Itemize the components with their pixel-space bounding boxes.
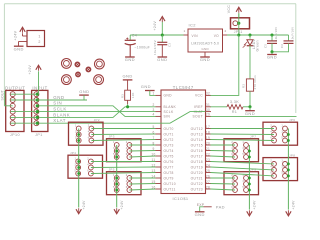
svg-text:31: 31 [206, 103, 210, 107]
svg-text:OUT17: OUT17 [191, 154, 203, 158]
IC IC1 TLC5947 [161, 90, 206, 194]
svg-text:GND: GND [122, 74, 132, 79]
svg-text:3: 3 [281, 166, 283, 169]
net SIN wire [39, 106, 155, 117]
svg-text:OUT23: OUT23 [191, 187, 203, 191]
svg-text:Green: Green [256, 40, 260, 51]
svg-text:6: 6 [231, 186, 233, 189]
resistor R1 [227, 105, 243, 109]
supply +24V at JP1 [36, 65, 41, 70]
svg-text:SIN: SIN [53, 101, 62, 106]
svg-text:JP3: JP3 [109, 135, 115, 139]
svg-text:R1: R1 [232, 110, 238, 114]
svg-text:30: 30 [206, 108, 210, 112]
pad JP11 [231, 18, 250, 29]
svg-text:OUTPUT: OUTPUT [5, 85, 26, 90]
svg-text:+24V: +24V [82, 200, 86, 210]
fiducial pad P3 [76, 72, 80, 76]
resistor R2 [246, 79, 253, 91]
svg-text:SOUT: SOUT [1, 90, 5, 101]
svg-text:2: 2 [87, 157, 89, 160]
svg-text:IC1O$1: IC1O$1 [172, 196, 188, 201]
svg-text:JP8: JP8 [289, 153, 295, 157]
wire VCC pin32 [211, 35, 239, 95]
svg-text:3: 3 [242, 147, 244, 150]
svg-text:1: 1 [113, 174, 115, 177]
fiducial pad P2 [86, 67, 90, 71]
net XLAT wire [39, 112, 205, 124]
header JP5 [107, 172, 142, 195]
svg-text:28: 28 [206, 185, 210, 189]
svg-text:PAD: PAD [216, 205, 225, 210]
svg-text:OUT20: OUT20 [191, 171, 203, 175]
svg-text:24: 24 [206, 163, 210, 167]
svg-text:2: 2 [88, 124, 90, 127]
svg-text:5: 5 [75, 136, 77, 139]
svg-text:1: 1 [113, 141, 115, 144]
svg-text:470 Ohm: 470 Ohm [253, 75, 257, 90]
svg-text:2: 2 [126, 174, 128, 177]
svg-text:1: 1 [281, 124, 283, 127]
header JP3 [107, 139, 142, 162]
svg-text:+24V: +24V [253, 200, 257, 210]
svg-text:4: 4 [88, 130, 90, 133]
svg-text:4: 4 [270, 166, 272, 169]
net BLANK wire [39, 107, 155, 118]
svg-text:2: 2 [270, 160, 272, 163]
svg-text:5: 5 [242, 186, 244, 189]
junction R1 R2 ground [248, 105, 251, 108]
svg-text:3.3K: 3.3K [230, 100, 239, 104]
svg-text:10uF/16V: 10uF/16V [274, 27, 278, 41]
wires OUT6-OUT8 to JP4 [91, 161, 156, 163]
svg-text:GND: GND [195, 212, 205, 217]
svg-text:23: 23 [206, 158, 210, 162]
svg-text:1: 1 [75, 124, 77, 127]
svg-text:10K: 10K [131, 92, 135, 98]
svg-text:6: 6 [270, 136, 272, 139]
svg-text:R2: R2 [242, 84, 246, 88]
svg-text:OUT22: OUT22 [191, 182, 203, 186]
svg-text:1: 1 [242, 141, 244, 144]
svg-text:GND: GND [157, 57, 167, 62]
ground below C3 [158, 56, 168, 58]
svg-text:OUT3: OUT3 [164, 143, 174, 147]
capacitor C4 [129, 35, 131, 40]
svg-text:29: 29 [206, 113, 210, 117]
mounting hole H1 [62, 59, 72, 69]
svg-text:2: 2 [126, 141, 128, 144]
svg-text:JP9: JP9 [250, 168, 256, 172]
svg-text:25: 25 [206, 169, 210, 173]
net GND wire [37, 99, 87, 101]
svg-text:2: 2 [224, 29, 226, 33]
header JP8 [263, 158, 298, 181]
supply +24V arrow right1 [247, 211, 252, 216]
wire VCC rail [227, 34, 289, 36]
svg-text:6: 6 [126, 186, 128, 189]
svg-text:OUT2: OUT2 [164, 138, 174, 142]
wires OUT0-OUT2 to JP2 [91, 128, 155, 130]
svg-text:VCC: VCC [227, 5, 231, 14]
svg-text:TLC5947: TLC5947 [173, 85, 194, 90]
svg-text:OUT1: OUT1 [164, 132, 174, 136]
supply +24V symbol above C3 [160, 17, 165, 22]
svg-text:BLANK: BLANK [164, 105, 177, 109]
svg-text:2: 2 [231, 141, 233, 144]
svg-text:JP6: JP6 [289, 118, 295, 122]
wires OUT21-OUT23 to JP9 [211, 177, 236, 179]
junction VCC node [237, 33, 240, 36]
wire LED to R2 [249, 45, 251, 79]
wires OUT3-OUT5 to JP3 [129, 144, 155, 146]
svg-text:GND: GND [14, 46, 24, 51]
wire R2 to ground node [249, 91, 251, 107]
ground below C5 [271, 52, 273, 55]
svg-text:EXP: EXP [197, 203, 205, 207]
+24V rail JP2-JP4 [78, 129, 80, 208]
svg-text:VCC: VCC [195, 94, 203, 98]
svg-text:1: 1 [38, 35, 40, 39]
wires OUT18-OUT20 to JP8 [211, 162, 275, 164]
junction caps ground [270, 50, 273, 53]
svg-text:1: 1 [183, 29, 185, 33]
svg-text:32: 32 [206, 92, 210, 96]
svg-text:C3: C3 [168, 43, 172, 47]
svg-text:1: 1 [75, 157, 77, 160]
svg-text:18: 18 [206, 130, 210, 134]
header JP6 [263, 122, 298, 145]
ground below IC2 [200, 56, 210, 58]
svg-text:+24V: +24V [14, 30, 18, 40]
svg-text:OUT16: OUT16 [191, 149, 203, 153]
svg-text:5: 5 [113, 186, 115, 189]
wires OUT15-OUT17 to JP7 [211, 144, 236, 146]
mounting hole H4 [94, 75, 104, 85]
svg-text:+24V: +24V [120, 200, 124, 210]
svg-text:OUT5: OUT5 [164, 154, 174, 158]
svg-text:XLAT: XLAT [53, 118, 66, 123]
supply +24V symbol at X1 [20, 27, 25, 32]
svg-text:GND: GND [53, 95, 64, 100]
svg-text:GND: GND [201, 47, 208, 51]
svg-text:3: 3 [75, 130, 77, 133]
svg-text:OUT14: OUT14 [191, 138, 203, 142]
svg-text:5: 5 [75, 169, 77, 172]
mounting hole H3 [62, 75, 72, 85]
svg-text:6: 6 [88, 136, 90, 139]
ground below R1 [249, 107, 251, 111]
svg-text:C5: C5 [264, 44, 268, 48]
svg-text:3: 3 [113, 180, 115, 183]
junction at C3 [161, 33, 164, 36]
ground at X1 [18, 42, 20, 47]
header JP4 [68, 155, 103, 178]
svg-text:BLANK: BLANK [53, 112, 70, 117]
svg-text:OUT0: OUT0 [164, 127, 174, 131]
svg-text:OUT10: OUT10 [164, 182, 176, 186]
svg-text:5: 5 [113, 153, 115, 156]
header JP2 [69, 122, 104, 145]
svg-text:GND: GND [141, 84, 151, 89]
svg-text:26: 26 [206, 174, 210, 178]
svg-text:1: 1 [281, 160, 283, 163]
svg-text:SCLK: SCLK [164, 110, 174, 114]
svg-text:INPUT: INPUT [32, 85, 47, 90]
svg-text:OUT9: OUT9 [164, 176, 174, 180]
+24V rail JP6-JP8 [287, 129, 289, 210]
svg-text:10uF/35V: 10uF/35V [153, 40, 157, 55]
svg-text:17: 17 [206, 125, 210, 129]
svg-text:4: 4 [231, 180, 233, 183]
net SCLK wire [39, 111, 155, 113]
fiducial pad P1 [75, 62, 79, 66]
svg-text:3: 3 [242, 180, 244, 183]
svg-text:OUT12: OUT12 [191, 127, 203, 131]
svg-text:SIN: SIN [164, 115, 171, 119]
svg-text:OUT4: OUT4 [164, 149, 174, 153]
svg-text:5: 5 [281, 172, 283, 175]
svg-text:27: 27 [206, 180, 210, 184]
svg-text:2: 2 [38, 40, 40, 44]
svg-text:19: 19 [206, 136, 210, 140]
wires OUT9-OUT11 to JP5 [129, 177, 155, 179]
+24V rail JP7-JP9 [248, 145, 250, 210]
svg-text:SOUT: SOUT [192, 115, 203, 119]
svg-text:IREF: IREF [194, 105, 203, 109]
drawing frame [4, 3, 296, 5]
supply VCC symbol [236, 7, 241, 12]
net SOUT stub at JP10 [5, 91, 13, 106]
svg-text:VIN: VIN [192, 34, 199, 38]
svg-text:GND: GND [79, 89, 89, 94]
svg-text:3: 3 [113, 147, 115, 150]
wire bridges JP10-JP1 [10, 93, 36, 95]
svg-text:5: 5 [242, 153, 244, 156]
voltage regulator IC2 [188, 29, 223, 52]
LED1 [248, 33, 251, 36]
svg-text:OUT18: OUT18 [191, 160, 203, 164]
svg-text:2: 2 [231, 174, 233, 177]
svg-text:LM2931ADT-5.0: LM2931ADT-5.0 [191, 42, 219, 46]
connector X1 [27, 31, 45, 47]
svg-text:+24V: +24V [28, 65, 32, 75]
svg-text:21: 21 [206, 147, 210, 151]
svg-text:3: 3 [75, 163, 77, 166]
capacitor C6 [288, 35, 290, 41]
svg-text:+24V: +24V [153, 21, 157, 31]
svg-text:10uF/16V: 10uF/16V [290, 27, 294, 41]
svg-text:+24V: +24V [292, 200, 296, 210]
header JP7 [224, 139, 259, 162]
svg-text:4: 4 [126, 147, 128, 150]
svg-text:OUT13: OUT13 [191, 132, 203, 136]
svg-text:~1000uF: ~1000uF [134, 45, 150, 49]
svg-text:GND: GND [200, 57, 210, 62]
ground at EXP pad [200, 207, 204, 212]
mounting hole H2 [95, 59, 105, 69]
svg-text:JP5: JP5 [109, 168, 115, 172]
svg-text:JP11: JP11 [234, 30, 243, 34]
svg-text:GND: GND [245, 111, 255, 116]
svg-text:4: 4 [126, 180, 128, 183]
+24V rail JP3-JP5 [116, 145, 118, 208]
resistor R3 pull-up [125, 90, 131, 100]
capacitor C5 [270, 33, 273, 36]
svg-text:OUT7: OUT7 [164, 165, 174, 169]
svg-text:C6: C6 [280, 44, 284, 48]
svg-text:SCLK: SCLK [53, 107, 66, 112]
svg-text:3: 3 [281, 130, 283, 133]
svg-text:JP10: JP10 [10, 133, 20, 137]
svg-text:6: 6 [126, 153, 128, 156]
svg-text:IC2: IC2 [189, 23, 197, 28]
svg-text:JP4: JP4 [70, 151, 76, 155]
svg-text:JP2: JP2 [94, 118, 100, 122]
svg-text:GND: GND [125, 57, 135, 62]
svg-text:5: 5 [281, 136, 283, 139]
svg-text:4: 4 [270, 130, 272, 133]
svg-text:JP1: JP1 [35, 133, 43, 137]
svg-text:OUT15: OUT15 [191, 143, 203, 147]
svg-text:GND: GND [267, 55, 277, 60]
svg-text:4: 4 [231, 147, 233, 150]
svg-text:OUT19: OUT19 [191, 165, 203, 169]
ground below C4 [125, 56, 135, 58]
svg-text:20: 20 [206, 141, 210, 145]
supply +24V arrow left1 [76, 209, 81, 214]
svg-text:6: 6 [231, 153, 233, 156]
svg-text:GND: GND [164, 94, 173, 98]
svg-text:OUT6: OUT6 [164, 160, 174, 164]
svg-text:4: 4 [87, 163, 89, 166]
svg-text:6: 6 [87, 169, 89, 172]
supply +24V arrow right2 [286, 211, 291, 216]
svg-text:6: 6 [270, 172, 272, 175]
svg-text:22: 22 [206, 152, 210, 156]
supply +24V arrow left2 [114, 209, 119, 214]
svg-text:VO: VO [214, 34, 219, 38]
svg-text:2: 2 [270, 124, 272, 127]
capacitor C3 [161, 35, 163, 42]
svg-text:OUT8: OUT8 [164, 171, 174, 175]
svg-text:JP7: JP7 [250, 135, 256, 139]
svg-text:R3: R3 [120, 94, 124, 98]
svg-text:C4: C4 [132, 34, 137, 38]
net IREF wire [211, 106, 228, 108]
net SOUT wire [211, 115, 297, 117]
svg-text:OUT21: OUT21 [191, 176, 203, 180]
wire +24V rail to regulator [130, 34, 183, 36]
header JP9 [224, 172, 259, 195]
wires OUT12-OUT14 to JP6 [211, 128, 275, 130]
svg-text:OUT11: OUT11 [164, 187, 176, 191]
